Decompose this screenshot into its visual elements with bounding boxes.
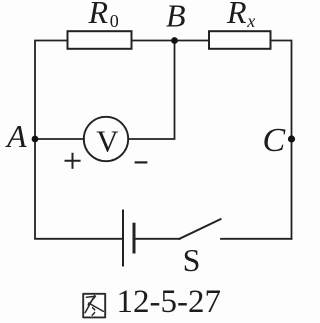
label Rx <box>226 0 255 31</box>
svg-text:R: R <box>226 0 247 30</box>
node C <box>288 135 295 142</box>
caption glyph tu (drawn) <box>83 294 105 318</box>
battery <box>123 211 134 266</box>
label A <box>5 118 27 154</box>
label R0 <box>88 0 119 31</box>
svg-text:S: S <box>183 242 201 278</box>
wire top-left (A corner to R0) <box>35 41 68 140</box>
wire R0 to Rx through node B <box>132 40 210 42</box>
label C <box>263 122 286 159</box>
caption number 12-5-27 <box>117 284 221 320</box>
svg-text:V: V <box>96 124 119 159</box>
node A <box>32 136 39 143</box>
svg-text:B: B <box>166 0 186 34</box>
wire left side (A down to battery) <box>35 139 123 239</box>
label B <box>166 0 186 34</box>
wire node A to voltmeter <box>35 138 84 140</box>
svg-text:0: 0 <box>110 11 119 31</box>
label V of voltmeter <box>96 124 119 159</box>
svg-text:x: x <box>246 11 255 31</box>
switch S <box>180 219 221 239</box>
node B <box>171 37 178 44</box>
wire switch to bottom-right corner <box>221 238 292 240</box>
resistor Rx <box>209 31 271 49</box>
resistor R0 <box>68 31 132 49</box>
wire node B down to voltmeter branch <box>128 41 174 140</box>
svg-text:R: R <box>88 0 109 30</box>
wire top-right (Rx to corner C side) <box>271 41 292 239</box>
svg-text:C: C <box>263 122 286 159</box>
minus polarity mark <box>136 161 147 163</box>
wire battery to switch <box>134 238 180 240</box>
label S of switch <box>183 242 201 278</box>
svg-text:12-5-27: 12-5-27 <box>117 284 221 320</box>
plus polarity mark <box>66 154 80 168</box>
svg-text:A: A <box>5 118 27 154</box>
op-amp voltmeter V circle <box>84 117 128 161</box>
